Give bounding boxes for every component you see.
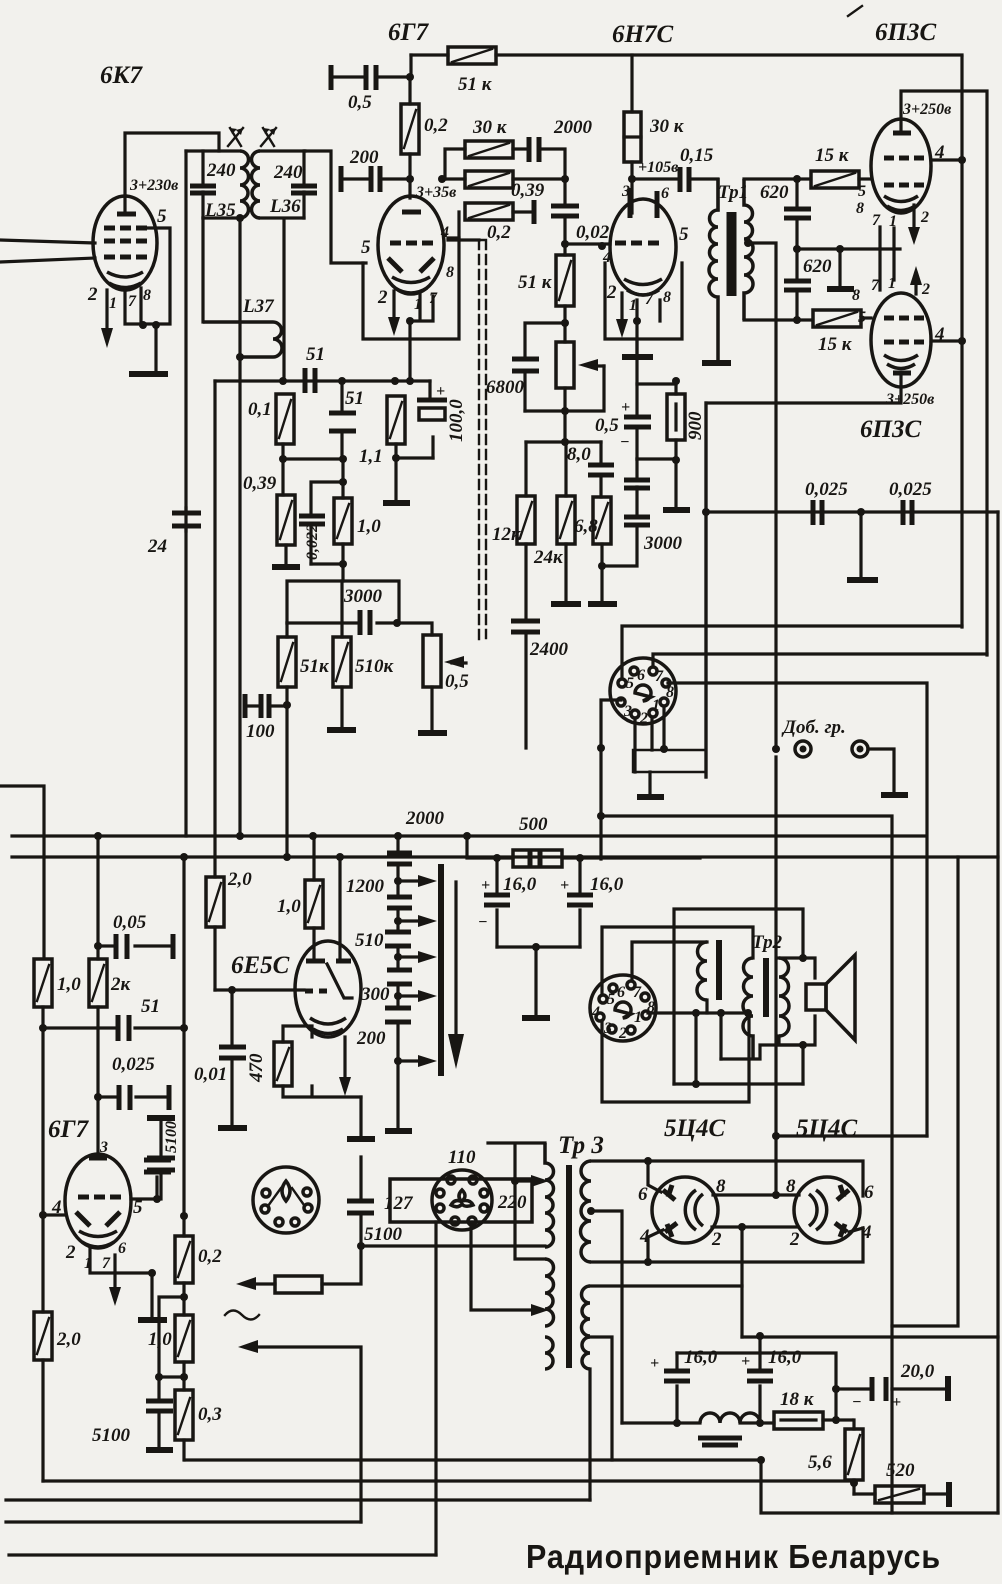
svg-text:500: 500 xyxy=(519,814,548,835)
wire x215 AVC feed xyxy=(213,381,216,877)
capacitor 0,022 xyxy=(299,516,325,564)
tube 6П3С upper xyxy=(871,119,931,213)
wire S1 pin3 to 500 line xyxy=(601,700,621,859)
electrolytic 100,0 xyxy=(417,381,447,458)
selector plug xyxy=(432,1170,492,1230)
svg-text:24: 24 xyxy=(147,536,167,557)
capacitor 0,025 right xyxy=(903,500,912,525)
wire 110 feed xyxy=(488,1143,545,1259)
svg-text:7: 7 xyxy=(102,1255,111,1272)
wire jack2 to ground xyxy=(868,749,894,792)
wire pins 7,1 lower to cathode line xyxy=(880,249,894,290)
svg-text:0,02: 0,02 xyxy=(576,222,610,243)
svg-text:Радиоприемник Беларусь: Радиоприемник Беларусь xyxy=(526,1538,941,1575)
svg-text:0,025: 0,025 xyxy=(112,1054,155,1075)
svg-text:1,0: 1,0 xyxy=(148,1329,172,1350)
wire grid cap 6K7 to L35 xyxy=(125,133,219,212)
wire 0,2 tap to dashed xyxy=(448,212,479,240)
svg-text:6,8: 6,8 xyxy=(574,516,598,537)
wire secondary top to 15k xyxy=(744,177,810,180)
wire choke to 18k xyxy=(622,1421,774,1424)
svg-text:8: 8 xyxy=(143,287,151,304)
node 16,0 no4 bottom xyxy=(673,1419,681,1427)
wire to IF pot xyxy=(397,623,432,635)
ground 6K7 cathode xyxy=(129,371,168,377)
ground 5100 cathode xyxy=(146,1447,173,1453)
svg-text:−: − xyxy=(620,434,630,451)
node 0,1 bottom xyxy=(279,455,287,463)
svg-text:6: 6 xyxy=(617,984,625,1001)
node 620 top xyxy=(793,175,801,183)
node 0,01 xyxy=(228,986,236,994)
svg-text:0,5: 0,5 xyxy=(348,92,372,113)
svg-text:6Е5С: 6Е5С xyxy=(231,952,290,979)
wire bottom box xyxy=(761,1460,998,1513)
node 6Г7 cathode xyxy=(406,317,414,325)
wire pin1 stem xyxy=(90,1248,152,1273)
resistor 30к vertical xyxy=(624,112,641,213)
arrow wiper 0,5 xyxy=(452,661,466,664)
speaker xyxy=(806,955,855,1040)
node x601 y816 xyxy=(597,812,605,820)
resistor 0,2 screen xyxy=(401,77,419,198)
node divider xyxy=(561,438,569,446)
wire top stub xyxy=(0,786,44,957)
svg-text:0,3: 0,3 xyxy=(198,1404,222,1425)
wire 3000 box top xyxy=(287,581,399,623)
wire 127 line xyxy=(361,1244,545,1247)
svg-text:8: 8 xyxy=(663,289,671,306)
svg-text:51: 51 xyxy=(306,344,325,365)
wire L35/L37 junction down to bus xyxy=(238,218,241,836)
wire cathode to ground xyxy=(154,325,157,371)
wire chain seg4 xyxy=(396,984,399,1007)
svg-text:51 к: 51 к xyxy=(518,272,553,293)
capacitor L36 tank 240 xyxy=(291,151,317,218)
node pin4 xyxy=(39,1211,47,1219)
svg-text:100,0: 100,0 xyxy=(446,399,467,442)
electrolytic 8,0 xyxy=(588,442,614,497)
capacitor 24 xyxy=(172,513,201,526)
svg-text:3: 3 xyxy=(621,183,630,200)
svg-text:51к: 51к xyxy=(300,656,330,677)
choke core xyxy=(698,1438,742,1445)
capacitor 2400 xyxy=(511,621,540,748)
svg-text:1,0: 1,0 xyxy=(277,896,301,917)
ground 6Е5С xyxy=(359,1097,362,1136)
wire mains neutral xyxy=(434,1222,437,1555)
svg-text:16,0: 16,0 xyxy=(503,874,537,895)
octal socket S1 xyxy=(610,658,676,727)
capacitor 3000 series xyxy=(287,610,399,635)
resistor 0,3 xyxy=(175,1390,193,1460)
svg-text:6: 6 xyxy=(864,1182,874,1203)
wire S2 pin5 up xyxy=(602,927,753,995)
svg-text:L37: L37 xyxy=(242,296,275,317)
Тр1 secondary xyxy=(744,179,753,320)
svg-text:2: 2 xyxy=(920,209,929,226)
wire L35 cap to L37 xyxy=(201,218,204,322)
wire mid to ground xyxy=(859,512,862,577)
svg-text:3: 3 xyxy=(623,703,632,720)
arrow 6Н7С cathode xyxy=(620,293,623,322)
svg-text:6: 6 xyxy=(638,1184,648,1205)
svg-text:0,5: 0,5 xyxy=(445,671,469,692)
svg-text:2: 2 xyxy=(921,281,930,298)
resistor 520 xyxy=(854,1486,946,1503)
resistor 12к xyxy=(517,496,535,619)
svg-text:100: 100 xyxy=(246,721,275,742)
wire S1 pin8 right xyxy=(668,683,927,1136)
capacitor 5100 plate xyxy=(144,1160,171,1172)
wire bus2 to filter xyxy=(892,857,958,1326)
svg-text:6П3С: 6П3С xyxy=(875,19,936,46)
resistor 6,8 xyxy=(593,497,611,601)
wire L36 bottom xyxy=(260,218,304,380)
resistor 470 xyxy=(274,1042,292,1086)
wire 51-bottom to 1,0 top xyxy=(311,459,343,515)
wire coupling line y512 xyxy=(706,403,998,777)
Тр1 core xyxy=(729,212,734,296)
node pins 6K7 xyxy=(139,321,147,329)
svg-text:18 к: 18 к xyxy=(780,1389,815,1410)
svg-text:Тр 3: Тр 3 xyxy=(558,1132,604,1159)
wire 12k drop xyxy=(524,442,527,496)
Тр3 primary P1 xyxy=(545,1143,554,1247)
svg-text:6Н7С: 6Н7С xyxy=(612,21,673,48)
svg-text:240: 240 xyxy=(206,160,236,181)
bus line 2 xyxy=(12,855,998,858)
node secondary tap xyxy=(744,239,752,247)
capacitor 0,15 xyxy=(680,167,718,210)
wire mains 2 xyxy=(256,1347,361,1522)
wire x998 B rail xyxy=(996,512,999,1513)
wire line y1555 xyxy=(9,1553,436,1556)
svg-text:510: 510 xyxy=(355,930,384,951)
resistor 51к AVC xyxy=(278,623,296,705)
svg-text:110: 110 xyxy=(448,1147,476,1168)
resistor 0,2 second xyxy=(465,200,534,224)
capacitor 0,025 left xyxy=(813,500,822,525)
wire cathode bias line xyxy=(637,339,676,459)
svg-text:2: 2 xyxy=(377,287,388,308)
wire pin box xyxy=(633,750,706,772)
wire grid line 6Е5С xyxy=(215,988,304,991)
svg-text:30 к: 30 к xyxy=(472,117,508,138)
Тр2 primary xyxy=(743,958,753,1059)
svg-text:5100: 5100 xyxy=(163,1121,180,1153)
svg-text:−: − xyxy=(478,914,488,931)
svg-text:+105в: +105в xyxy=(638,159,678,176)
wire S2 pin3 down-left xyxy=(602,1013,749,1102)
svg-text:0,39: 0,39 xyxy=(511,180,545,201)
capacitor 2000 padder xyxy=(387,853,412,864)
node 220 tap xyxy=(511,1177,519,1185)
tuning arrow xyxy=(454,882,457,1040)
wire 51k down to bus xyxy=(285,705,288,857)
ground 6,8 xyxy=(588,601,617,607)
wire pin5 line xyxy=(131,1197,157,1200)
resistor 1,0 left xyxy=(34,959,52,1007)
wire speaker bottom xyxy=(779,1016,815,1045)
svg-text:L36: L36 xyxy=(269,196,301,217)
svg-text:8: 8 xyxy=(852,287,860,304)
svg-text:510к: 510к xyxy=(355,656,395,677)
svg-text:200: 200 xyxy=(349,147,379,168)
svg-text:1200: 1200 xyxy=(346,876,385,897)
capacitor 620 lower xyxy=(784,249,811,320)
svg-text:6: 6 xyxy=(637,667,645,684)
svg-text:16,0: 16,0 xyxy=(590,874,624,895)
wire chain seg3 xyxy=(396,946,399,969)
resistor 0,2 bottom xyxy=(175,1216,193,1315)
wire pin4 upper to screen rail xyxy=(931,158,962,161)
svg-text:20,0: 20,0 xyxy=(900,1361,935,1382)
node pin5 xyxy=(153,1195,161,1203)
capacitor 200 xyxy=(385,1008,411,1022)
choke xyxy=(700,1413,760,1423)
wire to ground xyxy=(534,947,537,1015)
node y1013 x748 xyxy=(744,1009,752,1017)
resistor 5,6 xyxy=(845,1420,863,1494)
node 18k right xyxy=(832,1416,840,1424)
svg-text:2: 2 xyxy=(618,1025,627,1042)
wire L36 top xyxy=(260,149,305,152)
capacitor 100 xyxy=(245,694,287,718)
svg-text:+: + xyxy=(621,399,630,416)
symbol ~ xyxy=(225,1311,259,1320)
node 30k/plate xyxy=(628,175,636,183)
Тр3 primary P3 xyxy=(545,1337,553,1369)
electrolytic 16,0 no4 xyxy=(650,1353,690,1423)
svg-text:51 к: 51 к xyxy=(458,74,493,95)
svg-text:0,025: 0,025 xyxy=(889,479,932,500)
fuse mains xyxy=(252,1276,322,1293)
resistor 51к anode xyxy=(411,47,962,64)
wire bus2 to 6Е5С right xyxy=(338,857,341,959)
node x184 plate xyxy=(180,1212,188,1220)
node 900 top xyxy=(672,377,680,385)
ground 6Н7С xyxy=(622,354,653,360)
capacitor 51 series xyxy=(305,368,315,393)
capacitor 5100 heater xyxy=(147,1158,175,1199)
Тр3 primary P2 xyxy=(545,1259,554,1326)
resistor 18к xyxy=(774,1412,852,1429)
svg-text:1,1: 1,1 xyxy=(359,446,383,467)
node cathode bottom xyxy=(148,1269,156,1277)
node arrow5 xyxy=(394,1057,402,1065)
svg-text:5: 5 xyxy=(157,206,167,227)
svg-text:16,0: 16,0 xyxy=(768,1347,802,1368)
wire L35 top xyxy=(186,149,240,152)
wire plate6 no1 xyxy=(648,1161,661,1192)
node 200/grid xyxy=(406,175,414,183)
resistor 15к upper xyxy=(811,171,871,188)
jack 1 xyxy=(795,741,811,757)
capacitor 0,05 xyxy=(98,934,173,959)
svg-text:8,0: 8,0 xyxy=(567,444,591,465)
node bus1 x238 xyxy=(236,832,244,840)
svg-text:6П3С: 6П3С xyxy=(860,416,921,443)
node 16,0 no1 xyxy=(493,854,501,862)
wire pin5 bracket xyxy=(125,228,170,325)
resistor 1,1 xyxy=(387,396,405,444)
svg-text:5: 5 xyxy=(679,224,689,245)
capacitor 5100 mains xyxy=(347,1157,374,1246)
wire mains line y1522 xyxy=(6,1520,361,1523)
svg-text:1: 1 xyxy=(109,295,117,312)
svg-text:0,15: 0,15 xyxy=(680,145,714,166)
svg-text:6Г7: 6Г7 xyxy=(48,1116,90,1143)
capacitor 3000 shunt xyxy=(602,459,650,566)
svg-text:2: 2 xyxy=(639,710,648,727)
Тр3 5v winding xyxy=(582,1286,591,1336)
node 6Н7С cathode xyxy=(633,317,641,325)
svg-text:0,2: 0,2 xyxy=(198,1246,222,1267)
ground 16,0 xyxy=(522,1015,550,1021)
tube 6Н7С xyxy=(610,188,676,295)
svg-text:5: 5 xyxy=(858,309,866,326)
wire 0,1 to 0,39 junction xyxy=(283,444,343,495)
wire fuse feed xyxy=(467,836,513,858)
wire line A y816 xyxy=(601,816,892,1513)
node arrow3 xyxy=(394,953,402,961)
wire 51k bottom to 6800 and pot xyxy=(525,323,565,358)
wire plate4 no2 xyxy=(849,1228,863,1232)
ground 0,025 xyxy=(847,577,878,583)
svg-text:8: 8 xyxy=(856,200,864,217)
tube 6Е5С magic eye xyxy=(295,941,361,1037)
svg-text:0,01: 0,01 xyxy=(194,1064,227,1085)
wire plate4 no1 xyxy=(648,1230,663,1262)
svg-text:24к: 24к xyxy=(533,547,564,568)
resistor 0,39 xyxy=(277,495,295,565)
node bus1 x98 xyxy=(94,832,102,840)
node 0,39h left xyxy=(438,175,446,183)
arrow mains 2 xyxy=(238,1340,258,1353)
svg-text:Доб. гр.: Доб. гр. xyxy=(781,717,846,738)
node 6Г7 cathode line xyxy=(406,377,414,385)
capacitor 300 xyxy=(387,970,412,984)
svg-text:3+250в: 3+250в xyxy=(885,391,934,408)
svg-text:5Ц4С: 5Ц4С xyxy=(664,1115,725,1142)
capacitor 5100 cathode xyxy=(146,1377,173,1447)
Тр2 core xyxy=(763,958,769,1017)
arrow 6Г7 cathode xyxy=(392,291,395,320)
electrolytic 0,5 xyxy=(620,384,651,459)
node 1,1 xyxy=(391,377,399,385)
svg-text:3000: 3000 xyxy=(643,533,683,554)
svg-text:0,022: 0,022 xyxy=(304,524,321,560)
resistor 1,0 xyxy=(334,482,352,581)
wire L35 bottom xyxy=(203,216,240,219)
svg-text:5,6: 5,6 xyxy=(808,1452,832,1473)
arrow trimmer 5 xyxy=(398,1059,422,1062)
resistor 0,1 xyxy=(276,394,294,444)
wire 0,022 bottom join xyxy=(311,562,343,565)
trimmer arrows X2 xyxy=(261,128,276,146)
node mains junction xyxy=(357,1242,365,1250)
svg-text:5: 5 xyxy=(626,675,634,692)
wire x184 long xyxy=(182,857,185,1216)
wire tap to B+ rail xyxy=(748,243,776,749)
node B+ rail at jack line xyxy=(772,745,780,753)
wire wiper loop xyxy=(525,366,604,411)
wire filament to filter xyxy=(740,1227,743,1337)
electrolytic 16,0 no3 xyxy=(741,1336,773,1423)
Тр1 primary xyxy=(709,178,718,361)
svg-text:16,0: 16,0 xyxy=(684,1347,718,1368)
capacitor 200 xyxy=(341,166,410,192)
ground heater top xyxy=(147,1115,175,1121)
node 0,2/1,0 xyxy=(180,1293,188,1301)
arrow 127 tap xyxy=(531,1304,549,1316)
phono connector xyxy=(253,1167,319,1233)
wire S2 pin6 to W1 xyxy=(632,942,707,981)
wire 6Н7С pin box xyxy=(605,263,682,339)
wire 5,6 line left xyxy=(43,1479,854,1482)
ground 1,1 xyxy=(383,500,410,506)
node bus1 x398 xyxy=(394,832,402,840)
svg-text:15 к: 15 к xyxy=(818,334,853,355)
tube 5Ц4С no1 xyxy=(652,1177,718,1243)
resistor 51к grid xyxy=(556,244,574,323)
resistor 2к xyxy=(89,959,107,1097)
node pot bottom xyxy=(561,407,569,415)
tube 6К7 xyxy=(93,196,157,290)
node 620 mid xyxy=(793,245,801,253)
svg-text:2,0: 2,0 xyxy=(227,869,252,890)
wire HV tap to B- xyxy=(591,1211,622,1423)
svg-text:3000: 3000 xyxy=(343,586,383,607)
svg-text:900: 900 xyxy=(685,411,706,440)
node 0,5/51k xyxy=(409,55,412,77)
arrow 6Г7b cathode xyxy=(113,1255,116,1290)
wire pin4 lower to screen rail xyxy=(931,339,962,342)
svg-text:1,0: 1,0 xyxy=(57,974,81,995)
svg-text:7: 7 xyxy=(655,668,664,685)
switch plate bar xyxy=(438,864,444,1076)
node B+ jack line xyxy=(660,745,668,753)
wire 6Г7 pin box xyxy=(363,238,459,339)
node y1013 x696 xyxy=(692,1009,700,1017)
node 1,0/0,3 xyxy=(180,1373,188,1381)
wire plate line to 0,15 xyxy=(632,177,678,180)
capacitor 0,01 xyxy=(219,990,246,1125)
wire main AVC line y380 xyxy=(215,379,430,382)
svg-text:6800: 6800 xyxy=(486,377,525,398)
node 51 bottom xyxy=(339,455,347,463)
terminal bar mains cap xyxy=(347,1136,375,1142)
wire branch left xyxy=(159,1297,184,1377)
wire chain seg2 xyxy=(396,908,399,931)
wire cathode down xyxy=(635,321,638,356)
svg-text:+: + xyxy=(560,877,569,894)
node arrow4 xyxy=(394,992,402,1000)
svg-text:520: 520 xyxy=(886,1460,915,1481)
tube 6Г7 bottom xyxy=(65,1154,131,1248)
resistor 0,39 second xyxy=(442,171,565,188)
arrow trimmer 4 xyxy=(398,994,422,997)
svg-text:620: 620 xyxy=(760,182,789,203)
wire 6v bottom xyxy=(588,1369,591,1500)
coil L37 xyxy=(203,322,282,357)
svg-text:12к: 12к xyxy=(492,524,522,545)
svg-text:+: + xyxy=(650,1355,659,1372)
capacitor 620 upper xyxy=(784,179,811,245)
capacitor 51 left xyxy=(43,1015,184,1041)
svg-text:7: 7 xyxy=(645,291,654,308)
